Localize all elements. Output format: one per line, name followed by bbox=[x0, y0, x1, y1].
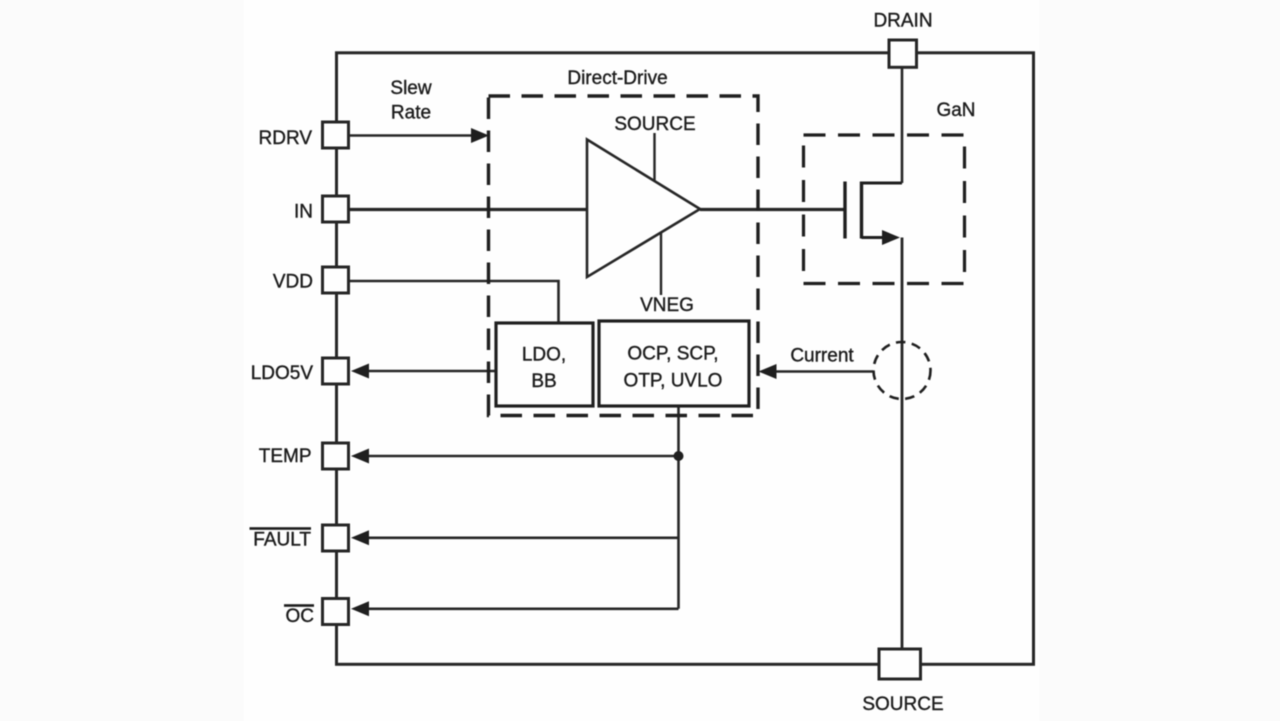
current sense dashed circle bbox=[874, 342, 931, 399]
svg-text:SOURCE: SOURCE bbox=[614, 114, 695, 135]
pin TEMP pad bbox=[323, 443, 349, 469]
wire amp output to gate bbox=[700, 208, 845, 211]
arrowhead into LDO5V bbox=[351, 364, 369, 379]
svg-text:TEMP: TEMP bbox=[259, 446, 312, 467]
svg-text:IN: IN bbox=[294, 202, 313, 223]
svg-text:Rate: Rate bbox=[391, 103, 431, 124]
wire bus to FAULT bbox=[367, 536, 679, 539]
pin FAULT pad bbox=[323, 525, 349, 551]
GaN FET Q1 channel bar bbox=[860, 182, 863, 239]
wire DRAIN pad down to FET drain bbox=[901, 67, 904, 183]
arrowhead into OCP current input bbox=[759, 364, 777, 379]
Direct-Drive dashed region bbox=[489, 96, 759, 416]
svg-text:LDO5V: LDO5V bbox=[251, 363, 314, 384]
svg-text:VDD: VDD bbox=[273, 272, 313, 293]
svg-text:SOURCE: SOURCE bbox=[862, 694, 943, 715]
pin VDD pad bbox=[323, 267, 349, 293]
svg-text:FAULT: FAULT bbox=[253, 530, 311, 551]
svg-text:RDRV: RDRV bbox=[259, 128, 313, 149]
wire FET source down to SOURCE pad bbox=[901, 238, 904, 650]
svg-text:GaN: GaN bbox=[936, 100, 975, 121]
svg-text:Direct-Drive: Direct-Drive bbox=[567, 68, 667, 89]
svg-text:LDO,: LDO, bbox=[522, 345, 566, 366]
GaN FET Q1 drain link bbox=[862, 182, 903, 185]
wire OCP status vertical bus bbox=[677, 407, 680, 609]
white content panel bbox=[244, 0, 1039, 721]
arrowhead into FAULT bbox=[351, 530, 369, 545]
arrowhead into OC bbox=[351, 601, 369, 616]
GaN dashed region bbox=[804, 135, 965, 284]
wire current sense to OCP bbox=[776, 370, 873, 373]
pin LDO5V pad bbox=[323, 358, 349, 384]
svg-text:VNEG: VNEG bbox=[640, 295, 694, 316]
wire VDD to LDO bbox=[349, 281, 559, 324]
pin RDRV pad bbox=[323, 122, 349, 148]
wire bus to TEMP bbox=[367, 455, 679, 458]
wire RDRV to slew-rate input bbox=[349, 134, 474, 137]
overline for OC bbox=[284, 604, 314, 607]
svg-text:BB: BB bbox=[531, 371, 556, 392]
GaN FET Q1 gate bar bbox=[843, 182, 846, 239]
block LDO/BB bbox=[496, 323, 593, 406]
wire LDO to LDO5V bbox=[367, 370, 497, 373]
junction dot on TEMP bus bbox=[674, 451, 684, 461]
GaN FET Q1 source link bbox=[862, 236, 885, 239]
pin IN pad bbox=[323, 196, 349, 222]
wire IN to amp input bbox=[349, 208, 587, 211]
arrowhead into TEMP bbox=[351, 449, 369, 464]
svg-text:DRAIN: DRAIN bbox=[873, 11, 932, 32]
GaN FET Q1 source arrow bbox=[882, 230, 900, 245]
svg-text:Slew: Slew bbox=[390, 78, 431, 99]
pin DRAIN pad bbox=[889, 40, 917, 67]
block OCP/SCP/OTP/UVLO bbox=[599, 321, 749, 406]
amplifier U1 triangle bbox=[587, 140, 700, 278]
svg-text:OC: OC bbox=[286, 606, 315, 627]
IC boundary box bbox=[337, 53, 1034, 665]
arrowhead into slew input bbox=[471, 128, 489, 143]
svg-text:OTP, UVLO: OTP, UVLO bbox=[624, 371, 723, 392]
amp SOURCE rail stub bbox=[653, 133, 655, 181]
overline for FAULT bbox=[250, 527, 312, 530]
svg-text:OCP, SCP,: OCP, SCP, bbox=[627, 344, 718, 365]
pin OC pad bbox=[323, 599, 349, 625]
pin SOURCE pad bbox=[879, 649, 921, 679]
wire bus to OC bbox=[367, 607, 679, 610]
svg-text:Current: Current bbox=[790, 346, 854, 367]
amp VNEG rail stub bbox=[660, 233, 662, 295]
